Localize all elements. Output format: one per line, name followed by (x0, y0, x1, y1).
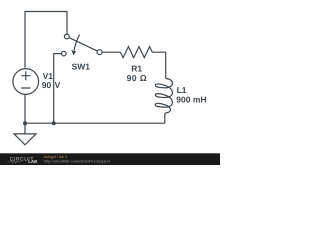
voltage source V1 (13, 69, 39, 95)
svg-text:SW1: SW1 (72, 61, 91, 71)
wire SW1 left throw down to bottom rail (54, 54, 62, 124)
wire V1 positive terminal up and across to SW1 common (25, 12, 67, 68)
inductor L1 (155, 78, 172, 123)
junction at SW1 left throw / bottom rail (52, 121, 56, 125)
svg-text:90 Ω: 90 Ω (127, 73, 148, 83)
svg-text:900 mH: 900 mH (176, 95, 206, 105)
ground (14, 123, 36, 145)
svg-text:90: 90 (42, 80, 52, 90)
switch SW1 (62, 34, 103, 56)
svg-text:L1: L1 (177, 85, 187, 95)
svg-text:LAB: LAB (28, 159, 37, 164)
wire SW1 right throw to R1 left lead (102, 51, 120, 53)
resistor R1 (120, 47, 152, 58)
wire R1 right lead to L1 top (152, 52, 165, 78)
svg-text:V: V (55, 80, 61, 90)
svg-text:http://circuitlab.com/c63od7uo: http://circuitlab.com/c63od7uo2yq3pd (44, 158, 110, 163)
CircuitLab watermark footer banner (0, 153, 220, 165)
V1 value label 90 V (42, 80, 61, 90)
junction at V1 negative / ground node (23, 121, 27, 125)
wire V1 negative terminal down to bottom rail (24, 94, 26, 123)
wire bottom rail (ground net) (25, 122, 165, 124)
